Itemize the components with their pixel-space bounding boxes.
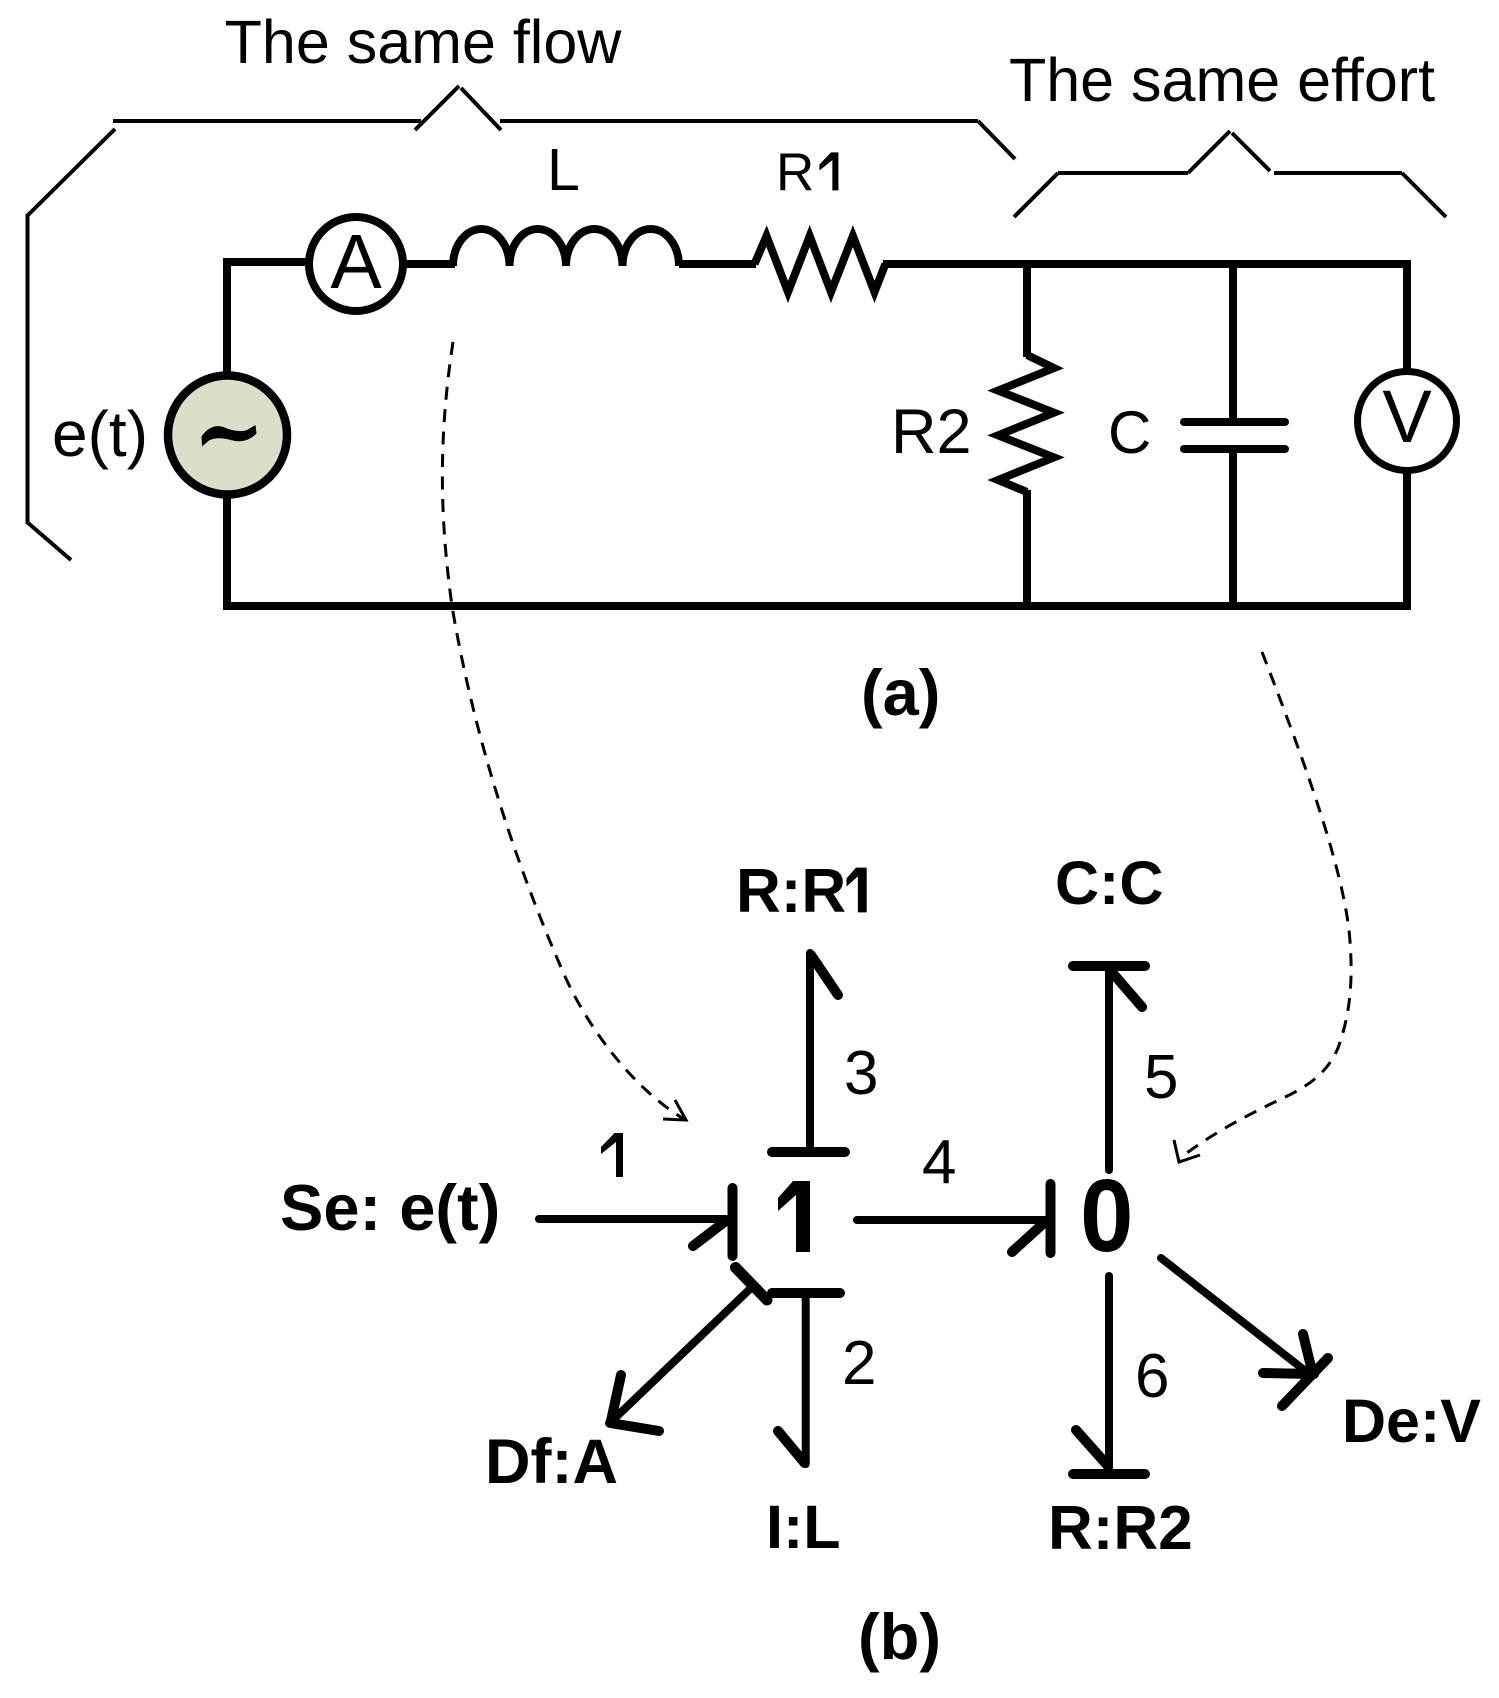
svg-text:The same effort: The same effort: [1009, 46, 1435, 114]
svg-text:Se: e(t): Se: e(t): [280, 1171, 500, 1244]
svg-text:(a): (a): [861, 656, 940, 729]
ammeter A1: [309, 217, 403, 311]
bond 3 (1-junction to R:R1): [772, 953, 845, 1152]
svg-text:5: 5: [1144, 1043, 1178, 1112]
svg-text:The same flow: The same flow: [225, 8, 623, 76]
svg-text:2: 2: [842, 1329, 876, 1398]
svg-text:0: 0: [1080, 1159, 1133, 1274]
svg-text:4: 4: [922, 1128, 956, 1197]
svg-text:6: 6: [1135, 1342, 1169, 1411]
dashed arrow from effort region to 0-junction: [1174, 652, 1351, 1162]
svg-text:R:R: R:R: [736, 857, 846, 926]
bottom wire rail: [223, 602, 1411, 610]
svg-text:e(t): e(t): [52, 398, 148, 470]
wire V branch top: [1403, 260, 1411, 372]
wire top-left from source to ammeter: [227, 262, 309, 268]
svg-text:Df:A: Df:A: [485, 1427, 618, 1497]
svg-text:R: R: [776, 143, 814, 202]
junction 1: [778, 1181, 810, 1252]
svg-text:De:V: De:V: [1342, 1387, 1481, 1455]
inductor L: [453, 229, 679, 266]
svg-text:A: A: [330, 219, 382, 305]
svg-text:(b): (b): [858, 1600, 941, 1673]
svg-text:3: 3: [844, 1039, 878, 1108]
capacitor C: [1184, 422, 1285, 449]
resistor R2: [998, 355, 1054, 492]
wire ammeter to inductor: [403, 260, 455, 268]
svg-text:R2: R2: [891, 397, 972, 467]
bond 4 (1-junction to 0-junction): [857, 1184, 1051, 1253]
bond 6 (0-junction to R:R2): [1073, 1276, 1145, 1474]
bond 5 (0-junction to C:C): [1073, 966, 1145, 1170]
svg-text:C:C: C:C: [1055, 849, 1163, 917]
bond to De:V (signal arrow): [1161, 1258, 1328, 1406]
wire C branch top: [1229, 260, 1237, 422]
svg-text:V: V: [1382, 375, 1432, 458]
dashed arrow from flow region to 1-junction: [442, 342, 686, 1120]
voltmeter V: [1358, 372, 1457, 471]
resistor R1: [755, 236, 886, 292]
bond 2 (1-junction to I:L): [772, 1293, 840, 1464]
brace for same-flow region: [27, 86, 1015, 560]
wire V branch bottom: [1403, 470, 1411, 610]
bond number 1: [601, 1133, 623, 1177]
svg-text:C: C: [1108, 399, 1151, 466]
svg-text:L: L: [547, 137, 580, 203]
bond to Df:A (signal arrow): [610, 1268, 767, 1432]
wire C branch bottom: [1229, 449, 1237, 610]
source e(t): [168, 376, 287, 495]
brace for same-effort region: [1014, 131, 1446, 217]
svg-text:I:L: I:L: [766, 1493, 841, 1561]
wire source bottom to bottom rail: [223, 494, 231, 610]
svg-text:R:R2: R:R2: [1048, 1494, 1193, 1563]
bond 1 (Se to 1-junction): [539, 1188, 733, 1256]
wire inductor to R1: [679, 260, 756, 268]
wire R2 branch top: [1023, 260, 1031, 357]
wire R1 to right edge (node top): [883, 260, 1411, 268]
wire R2 branch bottom: [1023, 490, 1031, 610]
